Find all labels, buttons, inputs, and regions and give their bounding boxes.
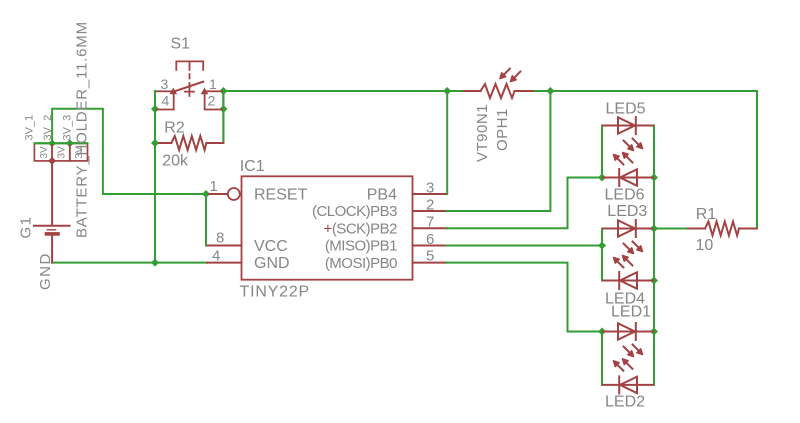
label LED6 (605, 186, 645, 203)
photoresistor R3 VT90N1 (464, 84, 533, 98)
svg-text:5: 5 (426, 248, 434, 265)
label GND (37, 252, 54, 290)
svg-text:3V_2: 3V_2 (42, 115, 54, 141)
svg-text:1: 1 (210, 178, 218, 195)
junction LED1 right (650, 328, 658, 336)
label (CLOCK)PB3 (312, 203, 397, 220)
photoresistor light arrows (500, 69, 520, 82)
LED2 (603, 359, 653, 394)
LED4 (603, 256, 653, 290)
label LED3 (607, 203, 647, 220)
svg-text:IC1: IC1 (240, 158, 265, 175)
svg-text:BATTERY_HOLDER_11.6MM: BATTERY_HOLDER_11.6MM (74, 21, 91, 238)
label (MOSI)PB0 (325, 255, 397, 272)
svg-text:4: 4 (162, 93, 170, 109)
svg-text:1: 1 (209, 76, 217, 92)
wire LED3 right to R1 (654, 228, 686, 230)
label 3V pad1 (39, 146, 50, 159)
junction LED6 left (598, 174, 606, 182)
IC1 pin 8 VCC stub (208, 245, 242, 247)
label +(SCK)PB2 (324, 220, 398, 237)
junction battery bottom (red) (48, 157, 56, 165)
label S1 pin 2 (208, 93, 216, 109)
label VT90N1 (474, 104, 491, 162)
wire S1 left rail down to GND (154, 91, 156, 263)
junction battery pin2 (48, 139, 56, 147)
svg-text:R1: R1 (696, 206, 717, 223)
svg-text:R2: R2 (164, 120, 185, 137)
svg-text:(CLOCK)PB3: (CLOCK)PB3 (312, 203, 397, 220)
label S1 pin 3 (161, 76, 169, 92)
svg-text:S1: S1 (171, 35, 191, 52)
label 3V_1 (24, 115, 36, 141)
LED5 (603, 117, 653, 151)
svg-text:VT90N1: VT90N1 (474, 104, 491, 162)
label R1 (696, 206, 717, 223)
label S1 pin 1 (209, 76, 217, 92)
label 3V pad2 (57, 146, 68, 159)
wire top net S1 to photoresistor to top-right corner (223, 91, 757, 229)
wire RESET to VCC pin8 (206, 194, 212, 246)
junction S1 pin4 (151, 105, 159, 113)
LED3 (603, 220, 653, 254)
junction GND/S1 rail (151, 259, 159, 267)
junction top net / pin2 riser (546, 87, 554, 95)
svg-text:OPH1: OPH1 (494, 108, 511, 151)
pin number 6 (426, 231, 434, 248)
svg-text:3: 3 (426, 180, 434, 197)
battery holder 3 pads (34, 143, 87, 161)
label LED1 (611, 304, 651, 321)
wire S1 right rail overlay (222, 91, 224, 143)
IC1 TINY22P box (242, 176, 413, 279)
LED6 (603, 153, 653, 187)
pin number 1 (210, 178, 218, 195)
svg-text:LED2: LED2 (605, 394, 645, 411)
junction S1 pin2 (219, 105, 227, 113)
label 3V pad3 (74, 146, 85, 159)
label IC1 (240, 158, 265, 175)
wire LED left rail mid loop (601, 229, 603, 281)
svg-text:LED1: LED1 (611, 304, 651, 321)
label 3V_2 (42, 115, 54, 141)
label LED4 (605, 291, 645, 308)
svg-text:2: 2 (426, 197, 434, 214)
svg-text:+(SCK)PB2: +(SCK)PB2 (324, 220, 398, 237)
wire battery top bus overlay (35, 142, 88, 144)
junction LED6 right (650, 174, 658, 182)
label GND pin (254, 255, 290, 272)
switch S1 (155, 61, 223, 109)
svg-text:GND: GND (37, 252, 54, 290)
label R2 (164, 120, 185, 137)
svg-text:20k: 20k (162, 152, 189, 169)
label S1 (171, 35, 191, 52)
IC1 pin 3 PB4 stub (413, 193, 447, 195)
label VCC (254, 238, 288, 255)
pin number 5 (426, 248, 434, 265)
label LED2 (605, 394, 645, 411)
svg-text:3: 3 (161, 76, 169, 92)
junction S1 pin1 / top net (219, 87, 227, 95)
IC1 pin 6 PB1 stub (413, 245, 447, 247)
wire S1 left rail overlay (154, 91, 156, 143)
IC1 pin 4 GND stub (207, 262, 242, 264)
svg-text:2: 2 (208, 93, 216, 109)
resistor R2 (159, 136, 223, 150)
pin number 4 (212, 248, 220, 265)
label 10 (696, 237, 714, 254)
wire PB3 to photoresistor right riser (447, 91, 551, 211)
junction R2 left (151, 139, 159, 147)
svg-text:6: 6 (426, 231, 434, 248)
label 3V_3 (61, 115, 73, 141)
svg-text:RESET: RESET (254, 187, 308, 204)
pin number 8 (216, 229, 224, 246)
pin number 3 (426, 180, 434, 197)
label BATTERY_HOLDER_11.6MM (74, 21, 91, 238)
wire S1 right rail to R2 (222, 91, 224, 143)
junction LED4 right (650, 277, 658, 285)
resistor R1 (686, 222, 757, 236)
junction LED3 right (650, 225, 658, 233)
svg-text:LED6: LED6 (605, 186, 645, 203)
svg-text:(MISO)PB1: (MISO)PB1 (325, 238, 397, 255)
label TINY22P (240, 284, 311, 301)
label PB4 (367, 187, 397, 204)
svg-text:G1: G1 (18, 215, 35, 238)
wire PB4 riser to top net (446, 91, 448, 194)
svg-text:3V_1: 3V_1 (24, 115, 36, 141)
label RESET (254, 187, 308, 204)
IC1 pin 7 PB2 stub (413, 227, 447, 229)
label 20k (162, 152, 189, 169)
svg-text:LED3: LED3 (607, 203, 647, 220)
wire battery plus to RESET net (35, 109, 207, 194)
svg-text:VCC: VCC (254, 238, 288, 255)
svg-text:8: 8 (216, 229, 224, 246)
svg-text:7: 7 (426, 214, 434, 231)
pin number 2 (426, 197, 434, 214)
junction RESET tee (202, 190, 210, 198)
IC1 pin 5 PB0 stub (413, 262, 447, 264)
battery G1 (34, 161, 70, 263)
wire LED left rail bottom loop (601, 332, 603, 385)
junction LED1 left (598, 328, 606, 336)
junction top net / pin3 riser (443, 87, 451, 95)
wire LED right rail (653, 126, 655, 385)
pin number 7 (426, 214, 434, 231)
svg-text:LED5: LED5 (606, 100, 646, 117)
IC1 pin 1 RESET (209, 188, 240, 200)
svg-text:3V: 3V (57, 146, 68, 159)
junction battery pin3 (66, 139, 74, 147)
svg-text:TINY22P: TINY22P (240, 284, 311, 301)
label (MISO)PB1 (325, 238, 397, 255)
label LED5 (606, 100, 646, 117)
svg-text:3V_3: 3V_3 (61, 115, 73, 141)
svg-text:GND: GND (254, 255, 290, 272)
wire LED left rail top loop (601, 126, 603, 178)
label OPH1 (494, 108, 511, 151)
label S1 pin 4 (162, 93, 170, 109)
wire PB2 to LED6 left (447, 178, 603, 229)
wire PB1 to LED mid left (447, 245, 603, 247)
wire GND bus from battery to IC pin4 (52, 262, 207, 264)
junction PB1 entry (598, 242, 606, 250)
svg-text:PB4: PB4 (367, 187, 397, 204)
IC1 pin 2 PB3 stub (413, 210, 447, 212)
LED1 (603, 323, 653, 357)
svg-text:4: 4 (212, 248, 220, 265)
label G1 (18, 215, 35, 238)
svg-text:(MOSI)PB0: (MOSI)PB0 (325, 255, 397, 272)
svg-text:10: 10 (696, 237, 714, 254)
svg-text:3V: 3V (39, 146, 50, 159)
wire PB0 to LED1 left (447, 263, 603, 332)
